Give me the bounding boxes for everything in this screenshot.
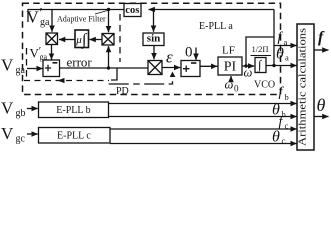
wire theta_c into arithmetic block: [110, 143, 297, 145]
label fa: [278, 30, 288, 47]
wire feedback top line right of cos with arrow into cos: [149, 9, 275, 11]
node junction error branch: [107, 66, 110, 69]
svg-text:error: error: [67, 55, 93, 70]
label fb: [279, 85, 289, 102]
svg-text:E-PLL b: E-PLL b: [56, 105, 90, 116]
wire X3 output to summer S2: [162, 67, 180, 69]
wire branch down into sin: [153, 10, 155, 32]
svg-text:PD: PD: [116, 86, 129, 97]
label fc: [279, 115, 289, 131]
svg-text:ω: ω: [244, 66, 253, 80]
wire sin output into X3: [153, 46, 155, 60]
wire feedback top line left of cos with corner stub: [28, 10, 124, 23]
wire X2 output into mu-integrator: [90, 39, 103, 41]
label Vgb input: [1, 99, 26, 120]
wire theta_a output into arithmetic block: [266, 65, 297, 67]
integrator VCO block: [251, 56, 272, 73]
svg-text:V: V: [1, 124, 14, 143]
svg-text:Arithmetic calculations: Arithmetic calculations: [297, 28, 309, 146]
svg-text:LF: LF: [222, 45, 235, 57]
multiplier X3: [148, 61, 162, 75]
svg-text:V: V: [27, 8, 40, 27]
input Vgb arrow: [27, 108, 38, 110]
label mu integral: [75, 32, 88, 50]
svg-text:f: f: [318, 29, 325, 46]
svg-text:a: a: [285, 53, 289, 63]
wire error tap down to PD dashes: [111, 68, 117, 80]
svg-text:E-PLL a: E-PLL a: [199, 21, 233, 32]
svg-text:gb: gb: [16, 108, 26, 119]
wire branch down into multiplier X2: [108, 10, 110, 33]
wire branch down into multiplier X1: [51, 10, 53, 32]
node junction omega: [244, 64, 247, 67]
E-PLL b block: [39, 102, 109, 118]
svg-text:c: c: [285, 121, 289, 131]
svg-text:θ: θ: [317, 95, 326, 115]
svg-text:b: b: [285, 92, 289, 102]
label V'ga top: [27, 6, 51, 28]
leader line adaptive filter: [95, 11, 108, 15]
cos block: [124, 4, 141, 17]
summer S2: [181, 61, 200, 77]
svg-text:ga: ga: [40, 53, 48, 62]
wire fc into arithmetic block: [110, 128, 297, 130]
dashed PD line right with up arrow: [109, 72, 176, 85]
wire PI output to integrator VCO: [242, 65, 254, 67]
svg-text:ga: ga: [40, 17, 50, 28]
svg-text:E-PLL c: E-PLL c: [57, 131, 91, 142]
label theta_c: [272, 129, 286, 146]
wire theta_b into arithmetic block: [109, 116, 297, 118]
wire omega branch up and right to fa: [246, 37, 274, 66]
wire X1 output down into summer S1: [51, 45, 53, 60]
svg-text:V: V: [1, 56, 14, 75]
svg-text:cos: cos: [125, 5, 139, 16]
wire error to multiplier X3: [60, 67, 149, 69]
input Vgc arrow: [27, 133, 38, 135]
svg-text:0: 0: [185, 45, 193, 61]
svg-text:gc: gc: [16, 134, 26, 145]
dashed separator vertical left: [26, 48, 28, 79]
svg-text:sin: sin: [147, 33, 160, 45]
node junction theta feedback: [272, 64, 275, 67]
svg-text:ga: ga: [16, 65, 26, 76]
svg-text:ε: ε: [166, 48, 173, 67]
svg-text:PI: PI: [224, 60, 237, 75]
wire feedback vertical from theta output up to top: [273, 10, 275, 66]
multiplier X1: [46, 33, 58, 45]
input Vga arrow: [27, 68, 43, 70]
PI block: [218, 57, 242, 75]
adaptive filter integrator block: [75, 30, 89, 48]
wire omega0 into PI: [230, 76, 232, 80]
svg-text:a: a: [284, 37, 288, 47]
sin block: [143, 33, 164, 46]
wire S2 to PI: [200, 65, 217, 67]
label omega0: [225, 78, 240, 94]
svg-text:VCO: VCO: [254, 80, 275, 91]
svg-text:1/2Π: 1/2Π: [252, 44, 269, 54]
dashed enclosure E-PLL a: [23, 3, 281, 94]
svg-text:θ: θ: [276, 46, 284, 63]
wire mu-integrator output into X1: [59, 39, 75, 41]
dashed PD line left with arrow: [24, 78, 109, 83]
svg-text:c: c: [282, 136, 286, 146]
svg-text:θ: θ: [272, 129, 280, 146]
label Vgc input: [1, 124, 26, 145]
multiplier X2: [102, 34, 114, 46]
wire fb into arithmetic block: [109, 103, 297, 105]
wire error branch up into X2: [108, 46, 110, 68]
svg-text:V: V: [1, 99, 14, 118]
label Vga input: [1, 56, 26, 77]
label theta_b: [272, 102, 286, 119]
wire fa output into arithmetic block: [274, 45, 297, 47]
svg-text:ω: ω: [225, 78, 234, 92]
output f arrow: [314, 49, 329, 51]
E-PLL c block: [39, 128, 111, 144]
arithmetic calculations block: [297, 24, 314, 150]
node junction on feedback line above multiplier X2: [107, 8, 110, 11]
svg-text:Adaptive Filter: Adaptive Filter: [57, 15, 106, 24]
wire zero reference into S2: [195, 48, 197, 60]
summer S1 error: [43, 60, 60, 77]
node junction on feedback line above sin: [152, 8, 155, 11]
label theta_a: [276, 46, 289, 63]
label V'ga small: [30, 45, 48, 62]
dashed separator vertical right of X2: [119, 14, 121, 62]
output theta arrow: [314, 116, 329, 118]
svg-text:0: 0: [234, 84, 239, 94]
